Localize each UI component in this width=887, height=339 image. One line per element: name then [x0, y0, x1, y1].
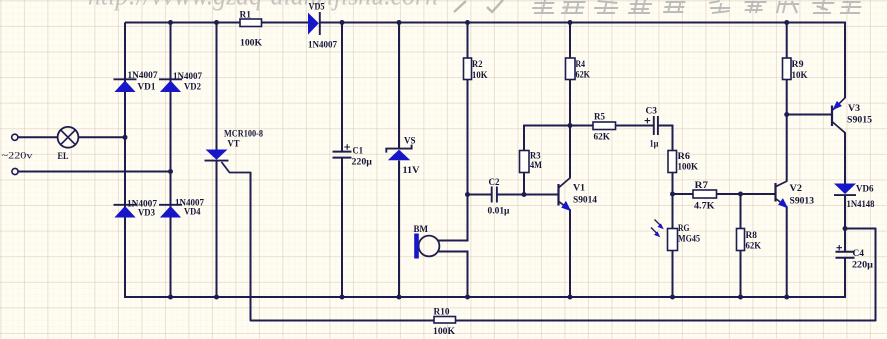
junction — [670, 192, 675, 197]
svg-text:MG45: MG45 — [678, 234, 700, 245]
svg-text:C1: C1 — [353, 146, 364, 157]
wire R4 column — [569, 23, 571, 59]
resistor R8 — [737, 229, 745, 251]
junction — [340, 295, 345, 300]
svg-text:VD2: VD2 — [184, 82, 201, 93]
svg-text:1N4007: 1N4007 — [308, 40, 337, 51]
wire R1 to VD5 — [262, 22, 309, 24]
wire R2 column — [467, 23, 469, 59]
svg-text:C2: C2 — [489, 177, 500, 188]
svg-text:S9013: S9013 — [790, 196, 815, 207]
svg-text:1N4148: 1N4148 — [847, 199, 875, 210]
junction — [522, 192, 527, 197]
wire thyristor anode/cathode column — [216, 23, 218, 150]
svg-text:R9: R9 — [792, 59, 804, 70]
wire V3 collector drop to VD6 — [844, 133, 846, 184]
watermark right (clipped CJK-like marks) — [531, 0, 557, 13]
junction — [465, 192, 470, 197]
wire right drop to V3 emitter — [844, 22, 846, 99]
junction — [465, 295, 470, 300]
junction — [568, 295, 573, 300]
junction — [123, 135, 128, 140]
junction — [568, 123, 573, 128]
resistor R5 — [593, 122, 616, 130]
wire VT gate diagonal — [222, 162, 230, 173]
transistor V3 S9015 (PNP) — [831, 106, 833, 127]
wire VD6 cathode to node — [844, 195, 846, 229]
svg-text:R6: R6 — [678, 151, 691, 162]
transistor V1 S9014 — [557, 184, 559, 206]
capacitor C3 — [653, 116, 655, 135]
wire R9 column — [786, 23, 788, 59]
svg-text:11V: 11V — [403, 165, 420, 176]
resistor R4 — [566, 58, 576, 80]
junction — [738, 192, 743, 197]
junction — [168, 20, 173, 25]
wire V3 collector diagonal — [832, 122, 846, 134]
junction — [738, 295, 743, 300]
svg-text:RG: RG — [678, 223, 690, 234]
svg-text:V3: V3 — [848, 103, 860, 114]
wire VD6/C4 node to right riser — [845, 228, 876, 230]
zener diode VS — [388, 150, 411, 161]
wire V2 emitter diagonal — [776, 199, 788, 208]
svg-text:62K: 62K — [594, 132, 611, 143]
resistor R6 — [668, 151, 677, 173]
photoresistor RG — [668, 229, 678, 251]
wire R5 row from R3 corner through R4/V1 node — [523, 125, 593, 127]
wire R6/RG node to R7 — [673, 193, 694, 195]
wire VT gate drop to R10 row — [250, 172, 252, 321]
svg-text:VD5: VD5 — [309, 2, 325, 13]
wire V1 collector diagonal — [559, 178, 571, 188]
wire right riser from R10 row to VD6/C4 node — [875, 228, 877, 322]
light arrow 2 on RG — [651, 228, 658, 235]
wire mic top lead — [467, 195, 469, 242]
wire V1 emitter drop to ground rail — [569, 210, 571, 299]
wire bridge right leg VD2/VD4 column — [170, 23, 172, 299]
diode VD5 — [308, 13, 319, 35]
resistor R3 — [520, 151, 530, 173]
junction — [784, 20, 789, 25]
svg-text:R5: R5 — [594, 111, 605, 122]
microphone BM — [419, 236, 440, 257]
svg-text:C3: C3 — [646, 106, 658, 117]
light arrow 1 on RG — [655, 220, 662, 227]
svg-text:R10: R10 — [434, 307, 450, 318]
wire VT gate horizontal — [229, 172, 251, 174]
diode VD3 — [114, 206, 135, 218]
svg-text:VD3: VD3 — [138, 208, 155, 219]
wire VS zener column — [398, 23, 400, 150]
resistor R9 — [783, 58, 792, 80]
svg-text:100K: 100K — [240, 37, 262, 48]
junction — [465, 20, 470, 25]
svg-text:100K: 100K — [433, 326, 455, 337]
wire R10 row right — [456, 320, 876, 322]
svg-text:1N4007: 1N4007 — [128, 70, 158, 81]
wire V1 collector riser — [569, 125, 571, 178]
diode VD6 — [834, 184, 856, 195]
capacitor C2 — [491, 187, 493, 203]
svg-text:100K: 100K — [678, 162, 699, 173]
svg-text:4M: 4M — [530, 160, 542, 171]
svg-text:S9014: S9014 — [573, 195, 597, 206]
wire R3 top connection — [523, 125, 525, 151]
wire mic bottom lead to ground rail — [438, 251, 469, 253]
wire R5 to C3 left plate — [616, 125, 654, 127]
svg-text:VD4: VD4 — [184, 207, 201, 218]
svg-text:10K: 10K — [472, 70, 488, 81]
junction — [397, 20, 402, 25]
capacitor C1 — [333, 151, 352, 153]
junction — [214, 20, 219, 25]
svg-text:S9015: S9015 — [847, 115, 872, 126]
wire base node to V1 base — [524, 194, 559, 196]
svg-text:htip://vvww.gzdq-dianzijishu.c: htip://vvww.gzdq-dianzijishu.corn — [88, 0, 438, 12]
wire node to C4 top plate — [844, 228, 846, 252]
wire AC live from terminal to lamp — [18, 136, 58, 138]
svg-text:EL: EL — [58, 151, 69, 162]
svg-text:~220v: ~220v — [2, 151, 33, 162]
junction — [784, 295, 789, 300]
wire lamp to bridge left leg — [78, 136, 125, 138]
svg-text:R1: R1 — [240, 9, 252, 20]
svg-text:V2: V2 — [790, 183, 803, 194]
junction — [168, 295, 173, 300]
svg-text:VS: VS — [404, 136, 416, 147]
svg-text:0.01µ: 0.01µ — [488, 205, 510, 216]
svg-text:4.7K: 4.7K — [694, 201, 715, 212]
svg-text:R2: R2 — [472, 59, 483, 70]
wire R7 to R8 node and V2 base — [717, 193, 776, 195]
svg-text:V1: V1 — [573, 183, 585, 194]
thyristor VT MCR100-8 — [206, 150, 228, 160]
svg-text:C4: C4 — [853, 248, 865, 259]
AC terminal bottom — [12, 168, 18, 174]
wire VD5 cathode to top-right corner (+V rail) — [320, 22, 847, 24]
wire V3 base from R9/V2 node — [787, 114, 832, 116]
resistor R7 — [693, 190, 717, 198]
wire R6 column — [672, 125, 674, 151]
svg-text:VT: VT — [228, 139, 240, 150]
diode VD4 — [160, 206, 181, 218]
wire C2 right plate to base node — [497, 194, 524, 196]
junction — [843, 226, 848, 231]
transistor V2 S9013 — [774, 183, 776, 202]
junction — [568, 20, 573, 25]
wire AC neutral from terminal to bridge right leg — [18, 171, 171, 173]
junction — [214, 295, 219, 300]
junction — [784, 112, 789, 117]
diode VD2 — [160, 81, 181, 93]
wire top rail left (bridge+ to R1) — [125, 22, 240, 24]
svg-text:R8: R8 — [746, 230, 758, 241]
junction — [670, 295, 675, 300]
capacitor C4 — [836, 251, 855, 253]
wire C1 column — [341, 23, 343, 152]
svg-text:VD6: VD6 — [856, 184, 874, 195]
wire V2 collector diagonal — [776, 181, 788, 187]
junction — [168, 169, 173, 174]
AC terminal top — [12, 134, 18, 140]
diode VD1 — [114, 81, 135, 93]
svg-text:62K: 62K — [576, 69, 591, 80]
svg-text:1N4007: 1N4007 — [173, 71, 202, 82]
wire R10 row left — [250, 320, 434, 322]
wire C3 right plate to R6 corner — [658, 125, 673, 127]
junction — [340, 20, 345, 25]
wire R8 column — [740, 194, 742, 229]
svg-text:220µ: 220µ — [352, 157, 373, 168]
svg-text:220µ: 220µ — [852, 259, 873, 270]
wire bridge left leg VD1/VD3 column — [124, 23, 126, 299]
wire V2 emitter drop to ground rail — [786, 207, 788, 298]
wire RG column — [672, 194, 674, 229]
svg-text:BM: BM — [414, 224, 429, 235]
wire ground rail — [125, 296, 846, 298]
wire C4 bottom plate to ground rail — [844, 258, 846, 299]
junction — [397, 295, 402, 300]
lamp EL — [58, 127, 79, 148]
resistor R2 — [464, 58, 472, 80]
resistor R10 — [434, 317, 456, 324]
wire V1 emitter diagonal — [559, 201, 571, 210]
wire R3 bottom to base node — [523, 173, 525, 195]
svg-text:VD1: VD1 — [138, 82, 156, 93]
resistor R1 — [240, 19, 262, 27]
wire node to C2 left plate — [468, 194, 492, 196]
svg-text:62K: 62K — [746, 241, 762, 252]
wire V3 emitter diagonal — [832, 97, 846, 110]
svg-text:10K: 10K — [792, 70, 808, 81]
svg-text:1µ: 1µ — [650, 139, 659, 150]
svg-text:R7: R7 — [695, 180, 709, 191]
